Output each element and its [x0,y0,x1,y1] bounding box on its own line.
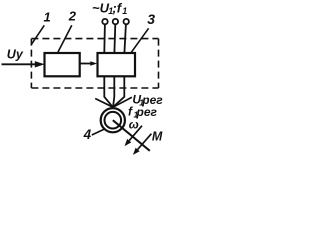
torque M arrow [138,134,152,150]
svg-text:4: 4 [83,127,92,142]
terminal circle L3 [124,19,129,24]
leader line 1 [31,25,44,44]
svg-text:2: 2 [68,9,77,24]
motor M inner circle [105,112,122,129]
ray left at motor top [95,99,113,108]
ray right at motor top [113,97,132,107]
omega arrow [129,126,142,141]
svg-text:1: 1 [122,6,127,16]
wire phase 1 top [103,24,106,53]
wire phase 3 top [124,24,126,53]
leader line 4 [92,129,105,135]
motor M outer circle [101,108,125,132]
svg-text:Uу: Uу [7,47,24,61]
wire phase 2 bottom [113,76,114,107]
arrowhead into block 2 [35,61,45,67]
dashed enclosure box (frequency converter unit) [31,39,158,88]
svg-text:M: M [152,129,163,143]
terminal circle L1 [102,19,107,24]
wire input Uy [2,63,37,65]
block 3 (rectangle, frequency converter) [98,53,136,76]
wire phase 3 bottom [113,76,124,107]
block 2 (rectangle, regulator) [45,53,80,76]
wire block2 to block3 [80,63,91,65]
leader line 3 [131,28,148,52]
svg-text:~U: ~U [92,0,110,15]
svg-text:1: 1 [44,10,51,25]
wire phase 1 bottom [104,76,113,107]
svg-text:3: 3 [147,11,155,27]
terminal circle L2 [113,19,118,24]
shaft line from motor center [113,120,150,151]
svg-text:ω: ω [129,117,139,131]
wire phase 2 top [113,24,116,53]
arrowhead into block 3 [90,61,97,66]
leader line 2 [58,25,72,52]
